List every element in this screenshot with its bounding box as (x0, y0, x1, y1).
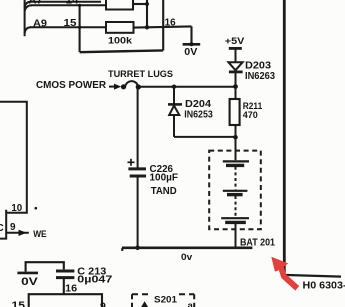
svg-text:16: 16 (165, 17, 176, 28)
svg-text:D203: D203 (245, 60, 271, 71)
svg-text:TAND: TAND (151, 186, 177, 197)
svg-text:14: 14 (66, 0, 80, 6)
svg-text:15: 15 (12, 300, 26, 307)
svg-text:15: 15 (64, 18, 78, 29)
svg-text:A7: A7 (29, 0, 43, 6)
svg-text:10: 10 (11, 203, 22, 214)
svg-text:C: C (0, 223, 4, 234)
svg-text:IN6263: IN6263 (245, 71, 275, 82)
svg-text:A9: A9 (33, 18, 47, 29)
svg-text:+5V: +5V (225, 36, 245, 46)
svg-text:100µF: 100µF (150, 173, 179, 184)
svg-text:16: 16 (65, 283, 77, 294)
svg-text:0v: 0v (181, 252, 193, 263)
svg-text:H0 6303-: H0 6303- (303, 280, 345, 291)
svg-text:100k: 100k (108, 35, 133, 45)
svg-text:IN6253: IN6253 (184, 110, 213, 121)
svg-text:CMOS POWER: CMOS POWER (36, 80, 107, 91)
svg-text:0V: 0V (184, 47, 197, 58)
svg-text:9: 9 (100, 301, 106, 307)
svg-text:470: 470 (243, 110, 258, 121)
svg-text:0V: 0V (21, 276, 39, 288)
svg-text:TURRET LUGS: TURRET LUGS (108, 69, 173, 79)
svg-text:a: a (188, 301, 194, 307)
svg-text:D204: D204 (185, 99, 211, 110)
svg-text:WE: WE (33, 229, 46, 239)
svg-text:9: 9 (10, 222, 16, 233)
svg-text:0µ047: 0µ047 (77, 275, 113, 286)
svg-text:S201: S201 (154, 294, 178, 305)
